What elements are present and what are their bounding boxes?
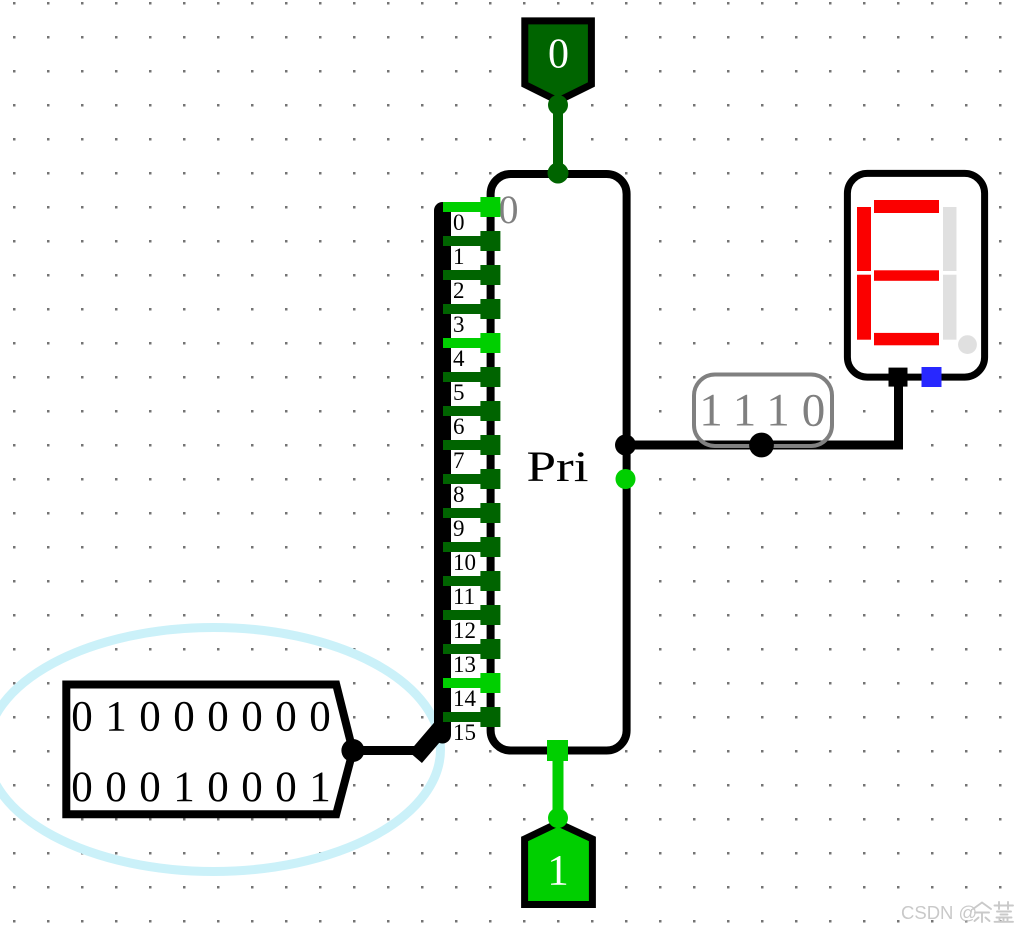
segment E (on) (857, 275, 871, 340)
svg-text:1: 1 (173, 764, 195, 811)
watermark CSDN @yulan (901, 902, 1013, 923)
pin bit9 of U1 (480, 503, 500, 523)
pin bit2 of U1 (480, 265, 500, 285)
svg-text:0: 0 (241, 764, 263, 811)
svg-text:0: 0 (139, 694, 161, 741)
pin bit0 of U1 (480, 197, 500, 217)
input pin P1 (bottom, value 1) (525, 740, 593, 905)
pin bit6 of U1 (480, 401, 500, 421)
tunnel label 0100000000010001 (66, 685, 353, 815)
node at pin tip (548, 95, 568, 115)
enable pin square (547, 740, 568, 761)
splitter stub bit11 (0) (443, 576, 490, 586)
pin bit13 of U1 (480, 639, 500, 659)
svg-text:10: 10 (453, 550, 476, 575)
node tunnel tip (341, 739, 364, 762)
pin bit8 of U1 (480, 469, 500, 489)
splitter stub bit9 (0) (443, 508, 490, 518)
pin bit7 of U1 (480, 435, 500, 455)
svg-text:1: 1 (453, 244, 465, 269)
display input pin (889, 368, 908, 387)
splitter stub bit6 (0) (443, 406, 490, 416)
splitter stub bit3 (0) (443, 304, 490, 314)
pin bit15 of U1 (480, 707, 500, 727)
svg-text:15: 15 (453, 720, 476, 745)
pin bit10 of U1 (480, 537, 500, 557)
splitter bit labels (453, 210, 477, 745)
svg-text:0: 0 (309, 694, 331, 741)
pin bit14 of U1 (480, 673, 500, 693)
splitter stub bit12 (0) (443, 610, 490, 620)
pin bit11 of U1 (480, 571, 500, 591)
svg-text:5: 5 (453, 380, 465, 405)
annotation ellipse (0, 628, 441, 872)
wire tunnel to splitter (353, 746, 424, 755)
svg-text:7: 7 (453, 448, 465, 473)
svg-text:0: 0 (499, 187, 519, 232)
segment F (on) (857, 207, 871, 271)
segment D (on) (874, 333, 939, 345)
svg-text:1: 1 (547, 848, 569, 895)
svg-text:1: 1 (733, 385, 757, 437)
splitter stub bit8 (0) (443, 474, 490, 484)
segment A (on) (874, 200, 939, 213)
splitter stub bit13 (0) (443, 644, 490, 654)
svg-text:0: 0 (802, 385, 826, 437)
svg-text:6: 6 (453, 414, 465, 439)
svg-text:0: 0 (207, 764, 229, 811)
svg-text:0: 0 (139, 764, 161, 811)
node at encoder top (548, 163, 569, 184)
probe body fill (694, 375, 832, 447)
svg-text:1: 1 (309, 764, 331, 811)
svg-text:2: 2 (453, 278, 465, 303)
node GS output (green) (616, 469, 636, 489)
splitter stub bit14 (1) (443, 678, 490, 688)
svg-text:1: 1 (105, 694, 127, 741)
svg-text:0: 0 (71, 694, 93, 741)
pin bit12 of U1 (480, 605, 500, 625)
splitter stub bit1 (0) (443, 236, 490, 246)
splitter stub bit15 (0) (443, 712, 490, 722)
splitter spine (434, 211, 451, 736)
splitter stub bit4 (1) (443, 338, 490, 348)
svg-text:9: 9 (453, 516, 465, 541)
svg-text:11: 11 (453, 584, 475, 609)
svg-text:0: 0 (105, 764, 127, 811)
hanzi lan (995, 902, 1014, 922)
splitter SP1 (421, 211, 443, 752)
pin bit3 of U1 (480, 299, 500, 319)
pin bit4 of U1 (480, 333, 500, 353)
svg-text:1: 1 (766, 385, 790, 437)
svg-text:8: 8 (453, 482, 465, 507)
svg-text:0: 0 (275, 764, 297, 811)
probe PR1 (1110) (694, 375, 832, 458)
splitter stub bit10 (0) (443, 542, 490, 552)
svg-text:0: 0 (548, 32, 569, 78)
segment C (off) (943, 275, 957, 340)
pin bit5 of U1 (480, 367, 500, 387)
segment G (on) (874, 270, 939, 281)
svg-text:14: 14 (453, 686, 477, 711)
segment B (off) (943, 207, 957, 271)
decimal point (off) (958, 335, 977, 354)
svg-text:3: 3 (453, 312, 465, 337)
svg-text:0: 0 (453, 210, 465, 235)
7-segment display U2 (847, 173, 984, 387)
svg-text:Pri: Pri (527, 444, 589, 491)
svg-text:0: 0 (207, 694, 229, 741)
unconnected pin (blue) (922, 367, 942, 387)
node at encoder output (615, 435, 636, 456)
svg-text:1: 1 (699, 385, 723, 437)
svg-text:0: 0 (71, 764, 93, 811)
splitter stub bit5 (0) (443, 372, 490, 382)
pin bit1 of U1 (480, 231, 500, 251)
splitter stub bit2 (0) (443, 270, 490, 280)
svg-text:0: 0 (173, 694, 195, 741)
splitter leg (421, 730, 439, 751)
svg-text:0: 0 (241, 694, 263, 741)
svg-text:13: 13 (453, 652, 476, 677)
input pin P0 (top, value 0) (525, 21, 592, 184)
hanzi yu (973, 903, 991, 923)
svg-text:4: 4 (453, 346, 465, 371)
svg-text:12: 12 (453, 618, 476, 643)
node at pin tip (548, 808, 568, 828)
wire bottom pin to encoder (553, 750, 564, 816)
svg-text:0: 0 (275, 694, 297, 741)
splitter stub bit0 (1) (443, 202, 490, 212)
priority encoder U1 body (491, 174, 627, 751)
wire top pin to encoder (553, 100, 563, 173)
splitter stub bit7 (0) (443, 440, 490, 450)
svg-text:CSDN @: CSDN @ (901, 902, 977, 923)
output wire encoder to display (627, 380, 899, 445)
node probe tap (749, 433, 774, 458)
